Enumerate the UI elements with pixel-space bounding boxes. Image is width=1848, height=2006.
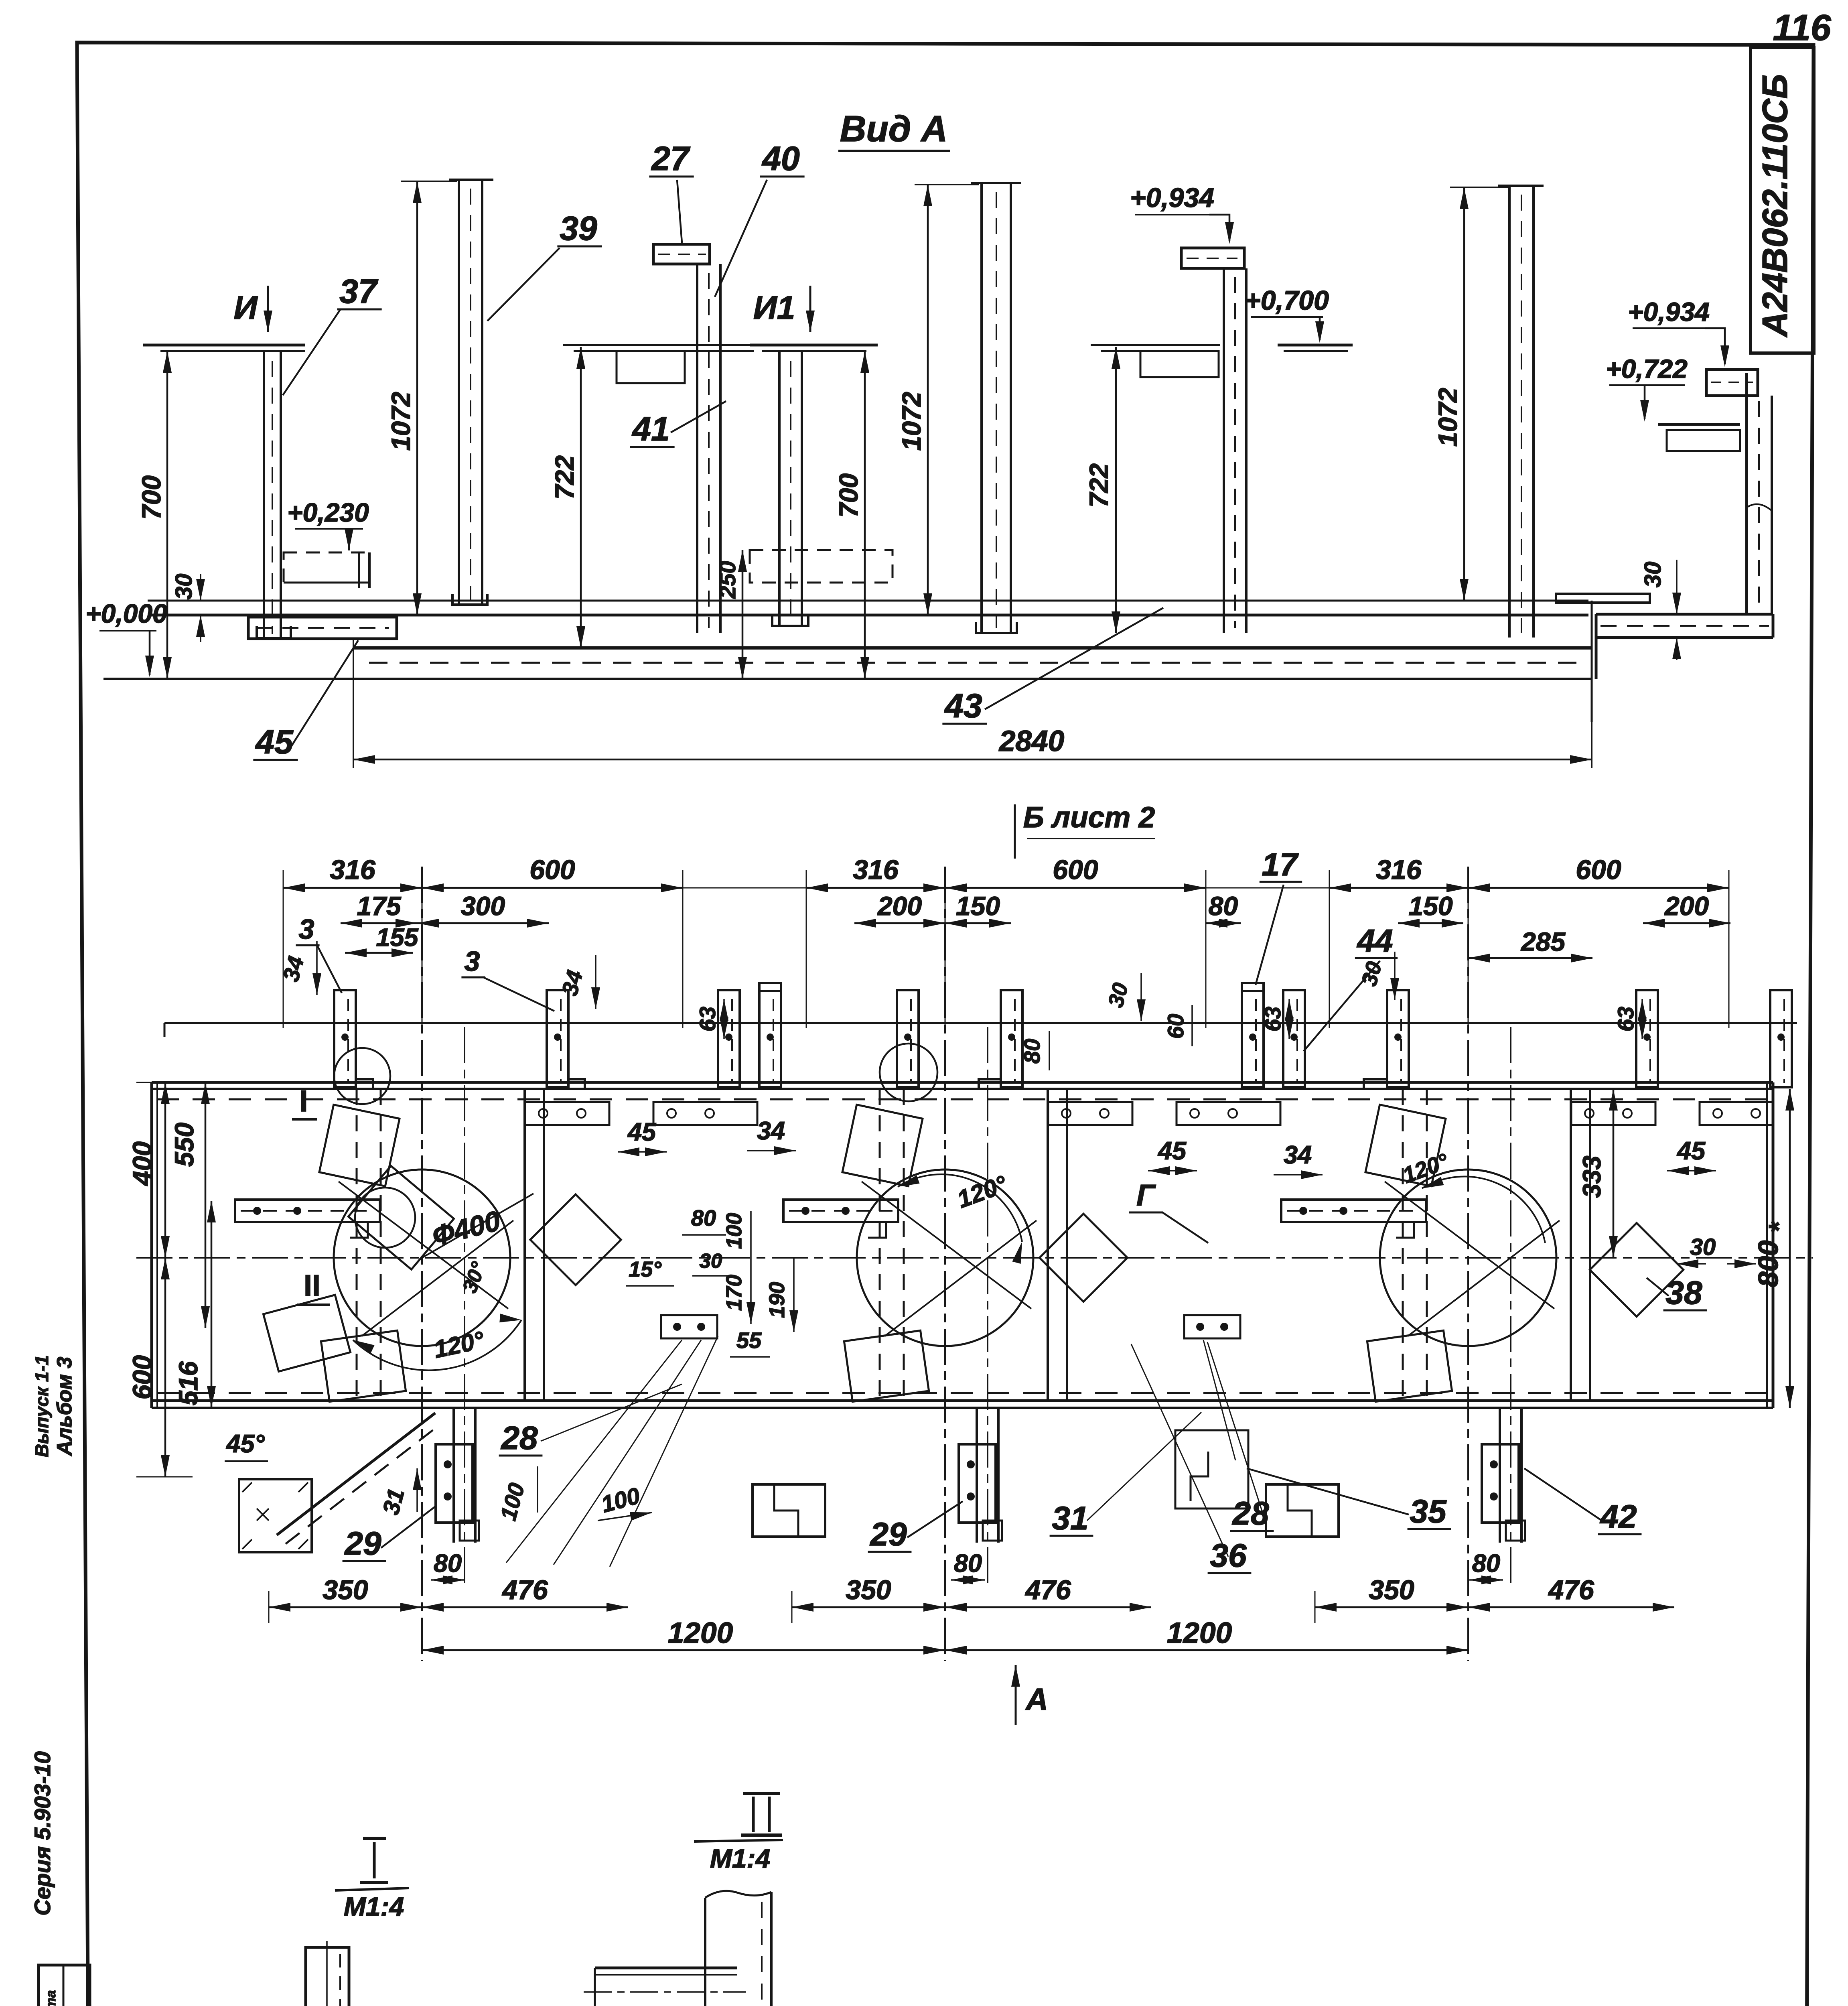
top lug at 2263 [897,990,919,1087]
svg-text:М1:4: М1:4 [710,1844,770,1873]
column6 [1223,268,1225,633]
extension for 2840 left [353,639,354,768]
dim 550 [205,1082,207,1328]
plan band left edge [150,1082,153,1408]
section I column [306,1947,349,2006]
base channel top [353,646,1592,650]
svg-text:35: 35 [1410,1493,1447,1530]
svg-text:М1:4: М1:4 [344,1892,404,1921]
plan horizontal centerline [136,1257,1813,1259]
svg-text:44: 44 [1357,923,1393,958]
right base end [1772,614,1775,638]
svg-text:63: 63 [1260,1007,1285,1031]
upper bracket plate [1177,1102,1280,1125]
bottom lug at 1158 [452,1408,455,1543]
svg-text:Вид А: Вид А [840,109,948,149]
dim 2840 [353,759,1592,761]
svg-text:700: 700 [834,473,863,518]
dim 600 left [164,1258,166,1477]
right cap plate [1706,370,1758,396]
svg-text:37: 37 [339,272,378,310]
plan band top edge [152,1081,1773,1084]
svg-text:42: 42 [1599,1498,1637,1535]
svg-text:722: 722 [550,455,579,499]
svg-text:34: 34 [757,1117,785,1145]
svg-text:80: 80 [954,1549,982,1578]
flange 722 right [1091,344,1220,346]
svg-text:Серия 5.903-10: Серия 5.903-10 [30,1751,55,1916]
svg-text:45: 45 [627,1118,656,1146]
svg-text:80: 80 [691,1205,716,1230]
svg-text:60: 60 [1163,1014,1188,1039]
svg-text:36: 36 [1210,1537,1247,1574]
svg-text:285: 285 [1520,927,1566,956]
top lug at 3485 [1387,990,1409,1087]
paddle upper unit 3 [1365,1105,1446,1186]
svg-text:550: 550 [169,1123,199,1167]
svg-text:30: 30 [1640,562,1666,588]
section II header [743,1792,780,1795]
base channel hidden dashes [369,662,1580,664]
detail bubble unit2 [880,1044,937,1101]
svg-text:28: 28 [1231,1495,1269,1532]
dim 800 star [1789,1089,1791,1408]
lug foot at 860 [356,1079,373,1089]
svg-text:+0,722: +0,722 [1606,354,1688,384]
svg-text:45: 45 [1157,1137,1187,1165]
cap plate +0.934 [1181,248,1244,268]
bracket under flange [617,351,685,383]
svg-text:80: 80 [1472,1549,1500,1578]
svg-text:175: 175 [357,891,401,921]
svg-text:40: 40 [761,140,799,177]
svg-text:1072: 1072 [386,392,416,451]
svg-text:200: 200 [1664,891,1709,921]
svg-text:400: 400 [127,1141,157,1186]
longitudinal rail lower line [148,614,1588,617]
svg-text:29: 29 [869,1516,907,1553]
plan band bottom edge [152,1399,1773,1402]
top lug at 4106 [1636,990,1658,1087]
svg-text:316: 316 [1376,855,1422,885]
svg-text:800: 800 [1753,1241,1784,1287]
chord line unit 1 [339,1182,508,1309]
paddle lower unit 2 [844,1330,929,1401]
dim 1072 col5 [927,185,929,615]
svg-text:333: 333 [1578,1155,1606,1198]
column 39 foot [452,594,487,605]
svg-text:350: 350 [1369,1575,1414,1605]
cap plate 27 [653,244,710,264]
svg-text:100: 100 [722,1213,746,1249]
top lug at 3226 [1283,990,1305,1087]
svg-text:170: 170 [722,1275,746,1311]
svg-text:476: 476 [1548,1575,1594,1605]
detail bubble I [334,1048,390,1104]
upper bracket plate [1700,1102,1773,1125]
column I1 stem [778,351,781,626]
column I1 foot [772,614,808,626]
column 39 plate [458,180,460,605]
arc 120 unit3 [1422,1177,1545,1243]
svg-text:516: 516 [173,1361,203,1405]
dim 722 right [1115,347,1117,633]
section II column [704,1898,706,2006]
svg-text:I: I [300,1084,308,1118]
svg-text:300: 300 [461,891,505,921]
base step vertical [1591,601,1593,722]
paddle upper unit 1 [319,1105,400,1186]
svg-text:30: 30 [171,574,197,600]
dim 400 [164,1082,166,1258]
svg-text:39: 39 [560,209,597,247]
svg-text:600: 600 [1576,855,1621,885]
upper bracket plate [653,1102,757,1125]
lug plate item 34 unit 1 [235,1200,380,1222]
upper bracket plate [525,1102,609,1125]
svg-text:2840: 2840 [998,725,1064,757]
top lug at 2522 [1001,990,1022,1087]
dim 1072 col2 [416,181,418,615]
top-right stamp box A24V062.110SB [1751,47,1814,353]
svg-text:190: 190 [765,1282,789,1318]
svg-text:+0,934: +0,934 [1130,183,1214,213]
corner pad with 45 strut [239,1479,312,1552]
svg-text:Подп. и дата: Подп. и дата [43,1990,59,2006]
leader fan left [506,1340,682,1563]
column 37 stem [263,351,265,638]
hidden web dashes [356,1089,358,1401]
paddle left-low unit 1 [263,1295,350,1372]
lug plate item 34 unit 3 [1281,1200,1426,1222]
mixing circle unit 3 [1380,1169,1556,1346]
svg-text:80: 80 [1209,891,1238,921]
svg-text:45: 45 [255,723,294,761]
svg-text:600: 600 [127,1355,157,1399]
dim 1072 col7 [1463,187,1465,601]
column5 foot [976,622,1017,633]
svg-text:350: 350 [323,1575,368,1605]
svg-text:1200: 1200 [1167,1617,1232,1649]
top lug at 1390 [547,990,568,1087]
bracket 250 level [750,550,893,583]
svg-text:II: II [304,1269,321,1302]
svg-text:3: 3 [465,946,480,977]
svg-text:55: 55 [736,1328,762,1353]
svg-text:30: 30 [700,1249,722,1272]
plan vertical station centerlines [421,867,423,1661]
svg-text:700: 700 [136,475,166,520]
pad middle 1 [753,1484,825,1537]
bottom lug at 3766 [1499,1408,1501,1543]
lug plate item 34 unit 2 [783,1200,898,1222]
svg-text:Выпуск 1-1: Выпуск 1-1 [31,1355,52,1457]
svg-text:3: 3 [299,914,314,945]
flange +0.700 left [143,344,305,347]
dim 722 col3 [580,347,582,648]
svg-text:28: 28 [500,1420,538,1456]
svg-text:1072: 1072 [897,392,926,451]
svg-text:И: И [234,290,258,326]
45 deg strut [277,1413,435,1535]
svg-text:45: 45 [1676,1137,1706,1165]
svg-text:+0,934: +0,934 [1628,297,1710,327]
svg-text:38: 38 [1665,1275,1702,1311]
bottom lug at 2462 [976,1408,978,1543]
svg-text:31: 31 [1052,1500,1088,1537]
dim row 350/476 [269,1606,422,1608]
svg-text:15°: 15° [629,1257,661,1281]
dim row 1200 [422,1649,945,1651]
flange +0.700 right [1278,344,1353,347]
svg-text:И1: И1 [753,290,795,326]
svg-text:30: 30 [1690,1234,1716,1260]
upper bracket plate [1048,1102,1132,1125]
svg-text:600: 600 [1053,855,1098,885]
interior bracket unit3 [1184,1315,1240,1338]
arc 120 unit2 [898,1174,1022,1242]
ground line 0.000 [103,678,1592,680]
dim 285 [1468,957,1592,959]
svg-text:476: 476 [1024,1575,1071,1605]
bracket under flange right [1140,351,1219,377]
column7 plate [1508,186,1511,638]
top lug at 860 [334,990,356,1087]
dim row 316/600 [683,887,806,889]
mid square item 35 [1175,1430,1248,1509]
svg-text:116: 116 [1773,8,1831,48]
section I header [363,1837,386,1840]
svg-text:27: 27 [651,140,690,177]
svg-text:41: 41 [631,410,669,448]
svg-text:+0,700: +0,700 [1245,285,1329,316]
interior bracket 28 [661,1315,717,1338]
svg-text:722: 722 [1084,463,1114,508]
svg-text:Альбом 3: Альбом 3 [53,1357,76,1457]
plan band right edge [1766,1082,1768,1408]
dim 516 [211,1201,213,1408]
svg-text:155: 155 [376,924,418,952]
paddle upper unit 2 [842,1105,923,1186]
svg-text:1200: 1200 [668,1617,733,1649]
cross member webs [523,1089,526,1401]
svg-text:45°: 45° [225,1430,265,1458]
plan band bottom hidden dash [156,1392,1769,1394]
dim 700 mid [864,351,866,679]
bracket +0.230 [284,552,369,583]
svg-text:80: 80 [434,1549,462,1578]
lug foot at 3485 [1364,1079,1387,1089]
svg-text:43: 43 [944,687,982,725]
section II beam [595,1967,737,1969]
paddle right unit 1 [530,1194,621,1285]
svg-text:80: 80 [1019,1039,1045,1064]
svg-text:+0,000: +0,000 [85,599,167,628]
foot plate item 45 [248,617,397,639]
column 40 [696,264,698,633]
svg-text:316: 316 [330,855,376,885]
chord line unit 3 [1385,1182,1554,1309]
dim row3 155 [345,952,413,954]
pad middle 2 [1266,1484,1339,1537]
plan band top hidden dash [156,1098,1769,1100]
lug foot at 2522 [979,1079,1001,1089]
column5 plate [980,183,983,633]
svg-text:А: А [1025,1682,1048,1717]
dim 250 [742,550,744,679]
right raised base top [1596,613,1773,616]
paddle lower unit 1 [321,1330,406,1401]
svg-text:17: 17 [1262,847,1299,882]
svg-text:Г: Г [1136,1178,1156,1212]
arc 120 unit1 [353,1320,521,1370]
right raised base bottom [1596,636,1773,639]
flange I1 [750,344,878,347]
dim 700 left [166,351,168,679]
bottom lug centerlines [464,1027,465,1589]
right column with break [1745,373,1748,614]
svg-text:150: 150 [1408,891,1452,921]
svg-text:150: 150 [956,891,1000,921]
svg-text:316: 316 [853,855,899,885]
lug foot at 1390 [568,1079,585,1089]
top lug at 3123 [1242,983,1264,1087]
dim 333 [1613,1089,1615,1258]
top lug at 1817 [718,990,740,1087]
svg-text:350: 350 [846,1575,891,1605]
svg-text:476: 476 [501,1575,548,1605]
svg-text:63: 63 [695,1007,720,1031]
paddle right unit 2 (G) [1039,1214,1127,1301]
svg-text:*: * [1763,1221,1794,1233]
svg-text:А24В062.110СБ: А24В062.110СБ [1755,74,1795,338]
column 37 foot [257,626,291,638]
right base hidden dash [1601,625,1769,627]
top rail line [164,1022,1797,1024]
mixing circle unit 1 [334,1169,510,1346]
mixing circle unit 2 [857,1169,1033,1346]
paddle right unit 3 / item 38 [1590,1223,1683,1316]
svg-text:600: 600 [529,855,575,885]
svg-text:29: 29 [344,1525,381,1562]
svg-text:250: 250 [715,561,740,599]
top lug at 4440 [1770,990,1792,1087]
top lug at 1920 [759,983,781,1087]
chord line unit 2 [862,1182,1031,1309]
svg-text:Б лист 2: Б лист 2 [1023,801,1155,834]
detail bubble II [355,1188,415,1248]
paddle mid unit 1 [348,1166,454,1269]
section arrow A [1015,1665,1017,1725]
svg-text:1072: 1072 [1433,388,1463,447]
cap plate small right [1556,594,1650,603]
flange mid (722 level) [563,344,763,346]
svg-text:34: 34 [1284,1141,1312,1169]
left attribute boxes [39,1965,90,2006]
svg-text:200: 200 [877,891,922,921]
paddle lower unit 3 [1367,1330,1452,1401]
dim row2 [341,922,417,924]
longitudinal rail upper line [148,600,1588,602]
svg-text:+0,230: +0,230 [287,497,369,527]
upper bracket plate [1571,1102,1655,1125]
right flange +0.722 [1658,423,1740,426]
svg-text:63: 63 [1613,1007,1638,1031]
